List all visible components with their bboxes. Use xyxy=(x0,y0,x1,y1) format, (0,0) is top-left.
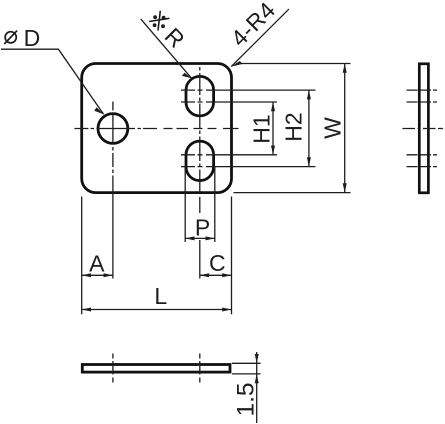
dim W extension lines xyxy=(236,63,351,65)
center line horizontal through hole xyxy=(75,128,239,130)
extension hole center to A dim xyxy=(112,176,114,279)
extension slot center to C dim xyxy=(199,197,201,279)
label kome mark xyxy=(149,11,169,31)
slot bottom xyxy=(186,141,214,181)
dim 1.5 extension lines xyxy=(232,362,261,364)
slot top xyxy=(186,76,214,116)
center line vertical through slots xyxy=(199,67,201,193)
dim C xyxy=(200,250,232,277)
svg-text:D: D xyxy=(24,25,41,51)
center line bottom slot upper arc / H1 extension xyxy=(181,154,277,156)
extension plate right edge down xyxy=(231,197,233,315)
svg-text:P: P xyxy=(195,214,210,240)
center line bottom slot lower arc / H2 extension xyxy=(181,166,316,168)
label diameter symbol xyxy=(4,31,17,44)
extension plate left edge down xyxy=(81,197,83,315)
center line vertical through hole xyxy=(112,102,114,174)
svg-text:C: C xyxy=(209,250,226,276)
dim H1 xyxy=(248,102,275,155)
svg-text:1.5: 1.5 xyxy=(232,382,259,416)
dim L xyxy=(82,283,232,312)
dim P xyxy=(185,214,215,240)
hole D xyxy=(98,114,128,144)
dim W xyxy=(320,64,347,193)
bottom view outline xyxy=(82,365,230,373)
svg-text:H1: H1 xyxy=(248,114,274,143)
bottom view center line hole xyxy=(112,354,114,383)
center line top slot upper arc / H2 extension xyxy=(181,89,316,91)
side view slot center lines xyxy=(407,90,438,167)
label 4-R4 leader xyxy=(231,9,289,67)
side view middle center line xyxy=(403,128,444,130)
label kome-R leader xyxy=(141,19,192,78)
side view outline xyxy=(419,64,428,193)
bottom view center line slot xyxy=(199,354,201,383)
plate outline front view xyxy=(82,64,232,193)
dim 1.5 xyxy=(232,352,259,423)
svg-text:L: L xyxy=(154,283,167,309)
center line top slot lower arc / H1 extension xyxy=(181,101,277,103)
dim A xyxy=(82,251,113,278)
svg-text:A: A xyxy=(89,251,105,277)
svg-text:H2: H2 xyxy=(280,112,306,141)
dim H2 xyxy=(280,90,311,167)
svg-text:W: W xyxy=(320,117,346,139)
dim P extension lines (slot sides) xyxy=(184,167,186,242)
label diameter D leader xyxy=(1,49,104,114)
